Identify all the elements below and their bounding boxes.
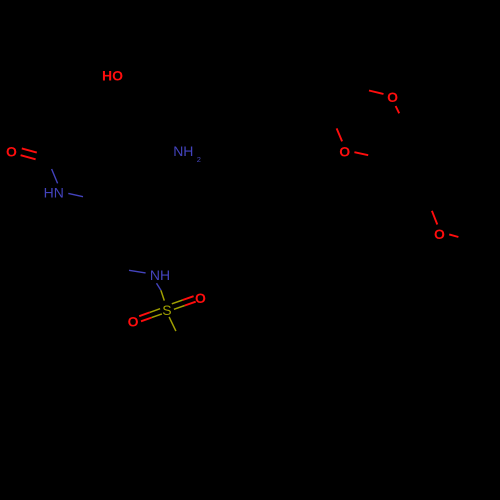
bond CH2-O red half (top): [369, 91, 384, 95]
svg-text:O: O: [339, 144, 350, 160]
S=O right double bond upper red half: [183, 296, 194, 300]
svg-text:O: O: [387, 89, 398, 105]
svg-text:NH: NH: [150, 267, 170, 283]
svg-text:2: 2: [197, 155, 201, 164]
C=O double bond lower red half: [21, 155, 36, 159]
svg-text:HN: HN: [44, 185, 64, 201]
svg-text:O: O: [434, 226, 445, 242]
svg-text:O: O: [195, 290, 206, 306]
S=O right double bond upper olive half: [172, 300, 183, 304]
svg-text:O: O: [128, 314, 139, 330]
bond N-S olive half: [161, 290, 164, 300]
S=O left double bond lower olive half: [152, 314, 162, 318]
bond O-CH3 red half (right from methoxy O): [449, 234, 458, 237]
S=O right double bond lower olive half: [174, 306, 185, 310]
S=O left double bond upper olive half: [150, 309, 160, 313]
bond O-Car red half (right from bottom O): [354, 152, 368, 155]
bond CH2-O red half (diagonal to bottom O): [337, 128, 343, 141]
bond S-Cphenyl olive half: [169, 317, 176, 331]
bond C(=O)-N blue half: [52, 169, 58, 183]
bond N-CH2 blue half: [68, 193, 83, 196]
svg-text:HO: HO: [102, 68, 123, 84]
C=O double bond upper red half: [22, 148, 37, 152]
svg-text:NH: NH: [173, 143, 193, 159]
bond N-S blue half: [157, 283, 161, 290]
S=O left double bond lower red half: [141, 318, 152, 322]
S=O left double bond upper red half: [139, 312, 150, 316]
svg-text:O: O: [6, 144, 17, 160]
bond CH2-N blue half (from left): [129, 270, 146, 273]
svg-text:S: S: [162, 302, 171, 318]
S=O right double bond lower red half: [185, 302, 196, 306]
bond O-Car red half (down from top O): [396, 106, 400, 113]
bond Car-O red half (diagonal to methoxy O): [432, 211, 437, 225]
